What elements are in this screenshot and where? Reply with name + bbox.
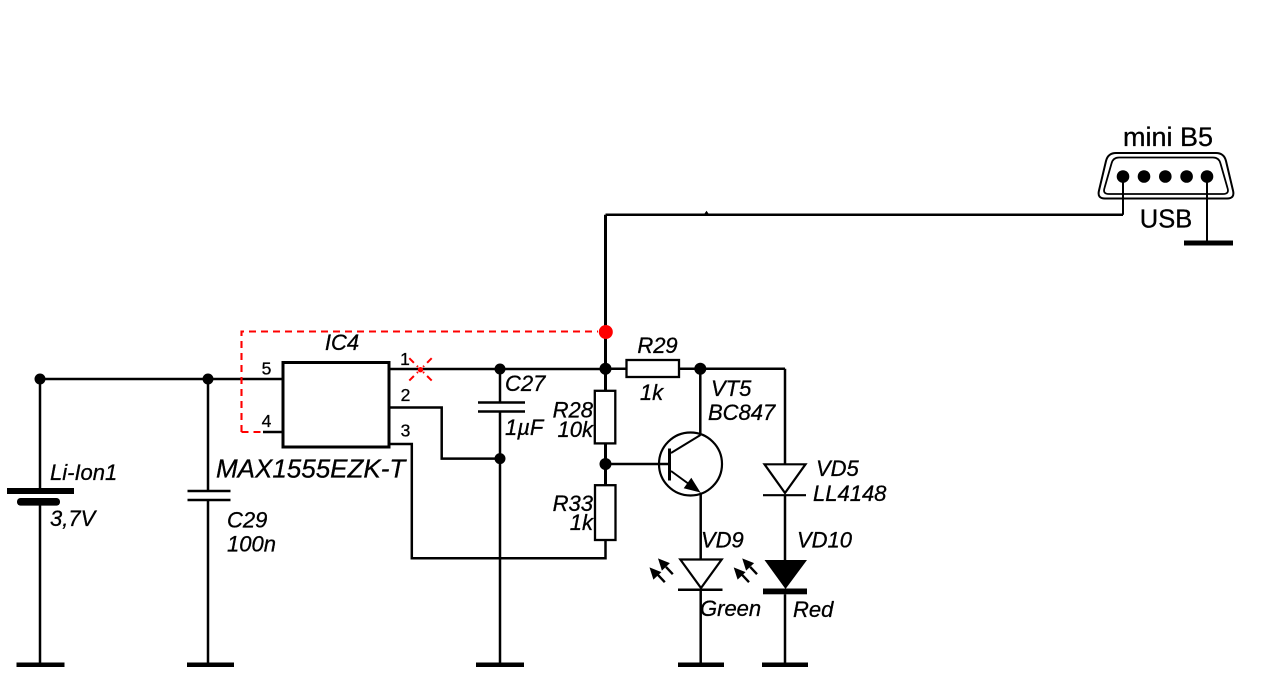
svg-text:1k: 1k <box>570 510 594 535</box>
svg-text:USB: USB <box>1140 206 1192 234</box>
svg-text:VD5: VD5 <box>816 456 860 481</box>
svg-text:1k: 1k <box>640 380 664 405</box>
svg-text:Green: Green <box>700 596 761 621</box>
svg-text:VD9: VD9 <box>701 528 744 553</box>
svg-text:VD10: VD10 <box>797 528 853 553</box>
svg-text:3: 3 <box>401 421 411 441</box>
svg-text:5: 5 <box>262 359 272 379</box>
svg-text:Li-Ion1: Li-Ion1 <box>50 460 117 485</box>
svg-text:2: 2 <box>401 385 411 405</box>
svg-text:1: 1 <box>400 349 410 369</box>
svg-text:LL4148: LL4148 <box>813 481 887 506</box>
svg-text:100n: 100n <box>227 532 276 557</box>
svg-text:R29: R29 <box>637 333 677 358</box>
svg-text:1µF: 1µF <box>505 415 545 440</box>
svg-text:C29: C29 <box>227 508 267 533</box>
svg-text:C27: C27 <box>505 371 546 396</box>
svg-text:4: 4 <box>262 411 272 431</box>
svg-text:VT5: VT5 <box>711 376 752 401</box>
svg-text:IC4: IC4 <box>325 330 359 355</box>
svg-text:mini B5: mini B5 <box>1123 122 1213 152</box>
svg-text:MAX1555EZK-T: MAX1555EZK-T <box>216 454 407 484</box>
svg-text:3,7V: 3,7V <box>50 506 98 531</box>
svg-text:10k: 10k <box>558 417 594 442</box>
svg-text:Red: Red <box>793 597 834 622</box>
svg-text:BC847: BC847 <box>708 400 776 425</box>
